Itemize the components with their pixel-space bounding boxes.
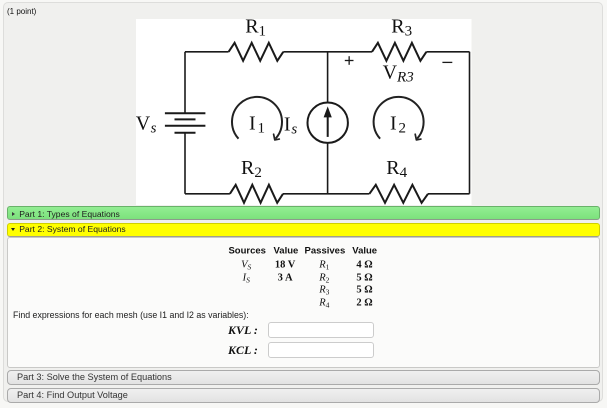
resistor R2 [230, 184, 283, 202]
wire left vertical lower [184, 132, 186, 193]
resistor R3 [372, 42, 426, 60]
Part 2 body panel [7, 237, 600, 368]
mesh arrow I1 [232, 96, 282, 138]
current source Is [308, 102, 348, 142]
KCL input [268, 342, 374, 358]
wire top-mid: R1 to R3 [283, 50, 372, 52]
resistor R4 [369, 184, 428, 202]
plus sign [345, 56, 354, 65]
wire bottom-mid [283, 192, 369, 194]
circuit schematic image [136, 19, 472, 205]
battery Vs [165, 113, 206, 132]
KVL input [268, 322, 374, 338]
wire mid vertical upper [327, 51, 329, 102]
Part 1 header (green) [7, 206, 600, 220]
wire mid vertical lower [327, 142, 329, 193]
wire top-right: R3 to right corner [426, 50, 469, 52]
wire bottom-left [185, 192, 230, 194]
wire right vertical [469, 51, 471, 193]
Part 3 header [7, 370, 600, 385]
wire bottom-right [428, 192, 470, 194]
wire left vertical upper [184, 51, 186, 113]
Part 2 header (yellow) [7, 223, 600, 237]
resistor R1 [229, 42, 284, 60]
mesh arrow I2 [374, 96, 424, 138]
table headers [228, 246, 266, 257]
table rows [241, 260, 251, 271]
Part 4 header [7, 388, 600, 403]
labels [136, 15, 453, 181]
wire top-left: node to R1 [185, 50, 229, 52]
minus sign [442, 61, 452, 63]
